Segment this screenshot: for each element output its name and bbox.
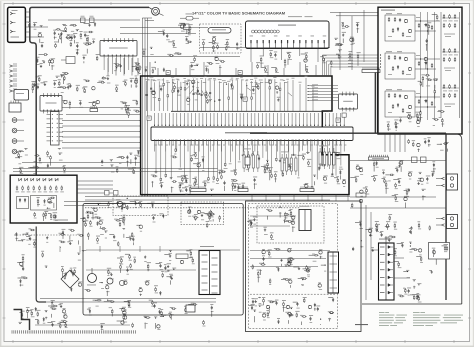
- power supply solid board box: [83, 204, 243, 316]
- vertical output IC IC801: [299, 210, 311, 231]
- flyback right parts: [418, 284, 419, 285]
- tuner box TU101: [8, 7, 26, 42]
- power transformer box T901: [246, 21, 330, 49]
- video amp cell on CRT board: [385, 15, 415, 41]
- tuner label: [11, 37, 20, 38]
- SMPS transformer T903: [199, 251, 220, 295]
- deflection area components: [360, 190, 363, 193]
- remote receiver dashed box: [113, 196, 168, 216]
- wire: antenna/AC cord bus along top: [30, 7, 149, 24]
- secondary filter caps: [107, 278, 113, 284]
- key switches SW1-SW7: [19, 179, 22, 182]
- wires: transformer secondary drops: [250, 49, 252, 63]
- tuner output pins: [25, 11, 29, 13]
- keypad lower parts: [55, 214, 57, 218]
- main box upper interior vertical stubs: [146, 81, 148, 111]
- wires: flyback leads: [385, 236, 387, 243]
- test point squares: [81, 18, 86, 23]
- wires: deflection horizontals: [350, 160, 446, 162]
- LED indicators: [17, 197, 29, 209]
- spark gap row below CRT board: [417, 143, 420, 146]
- sub board box outline: [246, 201, 362, 332]
- wires: long horizontals above main box: [142, 56, 240, 58]
- parts above notes text: [399, 295, 404, 297]
- vertical output dashed box: [257, 206, 324, 243]
- transformer pins header: [362, 70, 380, 73]
- title model subtext: [288, 15, 302, 18]
- AV input jacks: [12, 118, 17, 123]
- CRT board vertical rails: [420, 12, 422, 120]
- wire: degauss thick elbow bottom left: [14, 310, 30, 331]
- audio IC circles: [266, 305, 269, 308]
- wire: top distribution: [48, 19, 140, 21]
- wires: B+ horizontals into CRT board: [330, 11, 378, 13]
- wires: power box internal horizontals: [86, 249, 240, 251]
- power area bottom rows: [145, 317, 146, 318]
- wires: keypad outputs: [77, 180, 113, 182]
- CRT board middle column parts: [427, 79, 432, 81]
- H yoke connector CN801: [447, 174, 458, 190]
- crystal X401: [245, 157, 250, 165]
- U401 pin rail upper: [171, 110, 328, 112]
- wires: EEPROM bus lines: [308, 85, 338, 87]
- wires: lower AV horizontals: [22, 162, 140, 164]
- vertical area parts: [253, 218, 255, 219]
- IF area components: [36, 58, 38, 62]
- T901 winding pins: [250, 40, 252, 49]
- IR receiver: [117, 201, 122, 206]
- mid components between keypad and power: [108, 202, 110, 207]
- audio components: [252, 300, 254, 302]
- wires: horizontal trunk lines to power area: [85, 196, 218, 198]
- mid rows of box A: [290, 259, 292, 264]
- wires: AV lines to main box: [62, 120, 140, 122]
- frame ruler tick marks: [12, 2, 14, 5]
- notes text block right: [413, 311, 420, 314]
- main board heavy outline box: [141, 76, 349, 195]
- opto coupler IC901: [186, 305, 195, 312]
- H yoke arrows: [442, 177, 445, 180]
- wires: AC bundle down along main box left edge: [141, 18, 143, 196]
- wires: RGB lines main box to CRT board: [322, 55, 324, 69]
- power area components left: [134, 258, 136, 263]
- scan edge shading: [0, 0, 1, 347]
- wire: heavy dual bus down from transformer area: [374, 72, 376, 133]
- wires: tuner to IF: [30, 26, 49, 28]
- key resistor row: [16, 186, 18, 191]
- wire: heavy bus CRT bottom rail: [250, 132, 446, 134]
- V yoke arrows: [442, 217, 445, 220]
- fuse F901: [186, 17, 193, 21]
- CRT board right rail wires: [440, 12, 442, 118]
- CRT board bottom heater parts: [417, 120, 420, 123]
- CRT BOARD label: [381, 10, 395, 11]
- wires: verticals between box A and flyback: [365, 205, 367, 300]
- wires: B+ verticals to bus: [339, 12, 341, 70]
- inter-board connector CN301: [51, 112, 60, 146]
- resistor array columns in main box: [243, 155, 245, 168]
- wires: bundle up from main box top pins: [322, 69, 324, 76]
- V yoke connector CN802: [447, 215, 458, 229]
- wires: IF verticals to main box: [107, 58, 109, 76]
- sparse verticals right part of main box: [292, 80, 294, 111]
- wires: box A mid horizontals: [250, 250, 330, 252]
- T901 primary squiggle: [252, 30, 255, 33]
- AV switch IC301: [40, 96, 62, 112]
- keypad label: [55, 220, 68, 221]
- middle connector squares row: [105, 191, 110, 196]
- wire: dotted boundary line power area: [85, 207, 300, 209]
- sub board big dashed box: [248, 204, 337, 329]
- wires: box A verticals from main box: [251, 195, 253, 201]
- svg-text:14"/21" COLOR TV BASIC SCHEMAT: 14"/21" COLOR TV BASIC SCHEMATIC DIAGRAM: [192, 11, 285, 16]
- external connector arrows on left border: [10, 65, 13, 67]
- wire: left heavy bus vertical: [30, 24, 36, 175]
- wires: box A internal horizontals: [250, 215, 296, 217]
- power input parts row: [69, 242, 71, 243]
- audio section dashed separator: [250, 293, 336, 295]
- designator square below EEPROM: [342, 113, 346, 117]
- IF alignment dashed box: [181, 202, 224, 225]
- wires: AC routing above keypad board: [13, 168, 218, 170]
- keypad board heavy outline box: [10, 175, 77, 223]
- small connector CN302: [90, 109, 98, 112]
- headphone jack J301: [14, 90, 29, 101]
- transistor in dashed box: [197, 210, 200, 213]
- wire: heavy bus right vertical: [445, 133, 447, 300]
- parts row above main box: [169, 55, 174, 57]
- wires: mid-left horizontals: [62, 107, 140, 109]
- IF amp IC201: [100, 41, 137, 57]
- wires: main box top entries: [149, 62, 151, 76]
- mid-left components: [54, 82, 56, 84]
- SAW filter Z201: [66, 57, 75, 64]
- H-out transistor Q802: [359, 199, 362, 202]
- degauss relay box bottom right: [429, 243, 450, 260]
- top label row in main box: [147, 79, 150, 82]
- wires: CRT board drops to socket: [384, 134, 386, 152]
- wires: power verticals: [59, 246, 61, 252]
- main box lower interior long pins: [155, 140, 157, 171]
- wires: keypad to main area lines: [64, 201, 112, 203]
- AC plug P901: [152, 7, 160, 15]
- tuner antenna inputs: [10, 12, 12, 15]
- wire: dashed power primary boundary: [14, 234, 78, 236]
- bridge rectifier D901: [61, 270, 79, 288]
- main box lower interior components: [234, 170, 235, 171]
- switching transistor Q901: [180, 260, 183, 263]
- U401 bottom pins: [154, 140, 156, 152]
- audio board label: [355, 324, 368, 325]
- CRT input pin dots: [380, 54, 381, 55]
- B+ parts right of transformer: [352, 37, 354, 42]
- bottom edge tick comb: [11, 330, 13, 333]
- U401 top pins: [154, 113, 156, 126]
- main IC U401 long body: [151, 127, 353, 141]
- degauss box parts: [212, 38, 215, 41]
- wires: IF IC bottom pin drops: [103, 58, 105, 70]
- reference designator squares: [238, 71, 242, 75]
- keypad inner box: [31, 196, 57, 211]
- posistor PR901: [184, 24, 190, 30]
- bottom edge connectors inside main box: [190, 189, 206, 192]
- side connector box on left edge: [9, 103, 21, 112]
- line filter parts left: [188, 29, 190, 34]
- flyback transformer T802: [379, 243, 395, 300]
- CRT board right resistor columns: [443, 14, 445, 19]
- video amp cell on CRT board: [385, 91, 415, 117]
- EEPROM IC402: [339, 94, 358, 109]
- notes text block left: [379, 311, 385, 314]
- wire: CRT box bottom edge to right vertical thin: [378, 134, 462, 304]
- CRT board heavy outline box: [378, 7, 462, 134]
- video amp cell on CRT board: [385, 53, 415, 79]
- sound output IC with heatsink: [328, 252, 339, 293]
- wire: heavy bus bottom right return: [362, 303, 462, 305]
- main filter cap C910: [88, 274, 97, 283]
- small connector squares right of socket: [412, 157, 418, 163]
- label row below main IC: [154, 144, 157, 147]
- wire: left bus below keypad board: [36, 227, 46, 303]
- degaussing coil L901 bar: [208, 28, 231, 33]
- main box upper interior extra parts: [226, 84, 227, 85]
- wire: bottom power rail horizontal: [35, 324, 130, 326]
- component row below transformer: [265, 67, 267, 72]
- degaussing circuit dashed box: [200, 24, 242, 53]
- wires: power bottom rail: [40, 298, 216, 300]
- CRT socket connector: [369, 157, 389, 160]
- wires: trunk into box A: [218, 196, 351, 198]
